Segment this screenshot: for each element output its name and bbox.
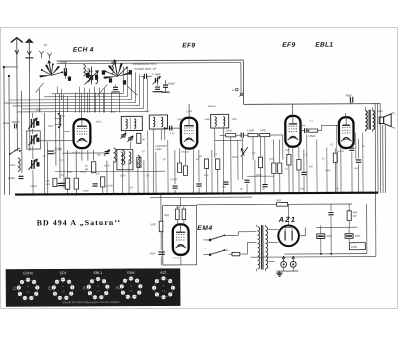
capacitor 100pF osc	[140, 74, 151, 79]
svg-text:1MΩ: 1MΩ	[150, 223, 155, 226]
power transformer T1	[256, 225, 267, 272]
resistor R osc grid	[137, 133, 146, 143]
svg-text:50pF: 50pF	[232, 118, 238, 121]
svg-text:300: 300	[97, 154, 102, 157]
wire left return 2	[8, 76, 11, 195]
svg-text:100: 100	[129, 186, 134, 189]
wire transformer taps	[252, 230, 278, 262]
wire bus bundle 3	[9, 70, 132, 100]
svg-text:2000: 2000	[9, 164, 16, 167]
svg-text:600: 600	[14, 149, 19, 152]
IF transformer IFT1 can	[121, 116, 142, 130]
resistor 1M detector	[260, 129, 270, 137]
resistor smoothing 10k	[347, 211, 357, 221]
wire right drop 5	[384, 125, 386, 193]
wire EM4 box bottom link	[163, 264, 197, 266]
capacitor af 3	[262, 185, 267, 187]
resistor R osc anode	[137, 157, 141, 167]
resistor R 10k	[85, 162, 96, 173]
capacitor tone	[349, 148, 354, 150]
svg-text:1MΩ: 1MΩ	[260, 129, 265, 132]
rectifier AZ1 U6	[278, 225, 299, 246]
heater fuse Si1	[281, 256, 287, 271]
loudspeaker LS1	[379, 112, 396, 130]
potentiometer volume arrow	[241, 147, 248, 157]
svg-text:25kΩ: 25kΩ	[95, 121, 102, 124]
output transformer T2	[365, 107, 374, 132]
trimmer IFT1 b	[127, 136, 133, 142]
wire right drop 2	[377, 103, 379, 193]
capacitor antenna series	[3, 121, 20, 129]
wire speaker links	[378, 111, 391, 125]
wire grid line EF9a	[188, 104, 190, 118]
svg-text:AZ1: AZ1	[278, 215, 297, 224]
wire det row	[220, 134, 283, 136]
bus junction dots	[66, 192, 378, 196]
wire bottom frame 2	[250, 256, 375, 259]
svg-text:BD 494 A „Saturn‘‘: BD 494 A „Saturn‘‘	[37, 218, 121, 227]
resistor 1M EM4 b	[164, 207, 186, 220]
resistor R anode EF9b	[287, 155, 291, 166]
tube EF9 U3 envelope	[285, 116, 300, 147]
capacitor cathode bypass ECH4	[58, 183, 64, 185]
grid components EF9a	[164, 126, 181, 141]
svg-text:0,5MΩ: 0,5MΩ	[308, 135, 316, 138]
svg-text:240pF: 240pF	[7, 176, 16, 180]
wire bus bundle 1	[51, 66, 123, 93]
svg-text:30pF: 30pF	[36, 109, 42, 112]
svg-text:C: C	[394, 127, 396, 130]
IF transformer IFT3 can	[211, 114, 229, 128]
wire grid return	[40, 140, 73, 142]
svg-text:4µF: 4µF	[354, 167, 359, 170]
svg-text:V O 1A: V O 1A	[172, 257, 180, 260]
capacitor 205pF ground T	[152, 80, 162, 92]
chassis bus bar	[15, 193, 377, 195]
resistor 0.1M detector	[247, 129, 258, 137]
svg-text:AZ1: AZ1	[160, 271, 167, 275]
resistor R cathode ECH4	[61, 174, 70, 190]
resistor 1M EM4 left	[150, 221, 163, 232]
wire right drop 4	[382, 125, 384, 193]
svg-text:Schalter oben: NF: Schalter oben: NF	[134, 67, 156, 71]
wire left branch	[21, 91, 23, 173]
component value labels	[9, 104, 366, 193]
panel choke symbol 1	[13, 285, 18, 289]
cluster capacitor blobs	[64, 70, 132, 85]
resistor 1M EM4 a	[176, 209, 180, 220]
wire EF9b pins	[289, 147, 304, 194]
resistor R screen ECH4	[74, 178, 78, 189]
svg-text:EM4: EM4	[197, 225, 213, 232]
wire EF9a pins to bus	[175, 148, 207, 194]
wire right frame vertical	[366, 204, 368, 254]
capacitor 240pF	[7, 176, 24, 180]
svg-text:P 87: P 87	[285, 149, 291, 152]
capacitor af 1	[223, 182, 228, 184]
svg-text:50µF: 50µF	[150, 252, 156, 255]
wire bus bundle 7	[17, 78, 148, 112]
capacitor bypass EF9a 2	[196, 184, 201, 186]
wire lower link rail	[196, 203, 270, 205]
switch antenna	[9, 148, 21, 155]
resistor R anode load EF9a	[198, 155, 209, 169]
svg-text:40µF: 40µF	[346, 93, 353, 97]
wire ECH4 cathode to bus	[68, 187, 103, 195]
socket view EF9	[52, 271, 75, 300]
gang section frame	[27, 131, 41, 149]
capacitor coupling to EBL1	[300, 124, 307, 133]
wire HT rail right	[244, 103, 380, 106]
wire anode line EF9b	[292, 104, 294, 117]
capacitor reservoir small	[328, 213, 333, 215]
wire left link top	[4, 66, 17, 68]
svg-text:1MΩ: 1MΩ	[269, 158, 274, 161]
svg-text:ECH 4: ECH 4	[73, 47, 94, 54]
svg-text:0,1MΩ: 0,1MΩ	[170, 178, 177, 181]
tuning capacitor C-gang b	[28, 159, 39, 170]
resistor R af	[278, 163, 282, 174]
svg-text:5000: 5000	[256, 174, 262, 177]
EM4 section frame	[163, 206, 197, 265]
IF transformer IFT2 can	[149, 115, 167, 129]
capacitor 30uF C30b	[345, 234, 361, 239]
tube ECH4 U1 envelope	[73, 119, 90, 148]
svg-text:pF: pF	[53, 152, 57, 155]
svg-text:10kΩ: 10kΩ	[351, 245, 357, 249]
wire EBL1 pins	[335, 139, 358, 193]
svg-text:10 kΩ: 10 kΩ	[55, 147, 62, 150]
socket view AZ1	[152, 271, 175, 300]
terminal marks 4-0 C-4	[232, 88, 243, 98]
wire bottom frame 1	[284, 253, 366, 255]
wire EM4 grid feed	[180, 197, 182, 205]
svg-text:MΩ: MΩ	[46, 183, 50, 186]
wire AVC line	[55, 170, 165, 173]
svg-text:100: 100	[68, 171, 73, 174]
capacitor detector coupling	[241, 133, 243, 138]
wire detector row link	[226, 134, 270, 136]
svg-text:100pF: 100pF	[110, 110, 117, 113]
cluster drop wires	[58, 86, 105, 112]
resistor R avc 1	[216, 159, 220, 170]
socket view EBL1	[87, 271, 110, 299]
cluster link diagonals	[35, 82, 137, 96]
wave switch S1b fan	[103, 60, 131, 79]
capacitor 170pF	[59, 60, 67, 79]
tube socket panel	[6, 269, 180, 307]
svg-text:EBL1: EBL1	[315, 42, 333, 49]
coil L1	[83, 65, 85, 76]
fuse F1 mains	[228, 252, 247, 255]
svg-text:T4: T4	[43, 43, 47, 47]
svg-text:regler: regler	[155, 148, 162, 151]
earth terminal Y1	[39, 51, 43, 59]
capacitor screen bypass ECH4	[92, 184, 97, 186]
tube EBL1 U4 envelope	[339, 117, 354, 148]
svg-text:100pF: 100pF	[177, 118, 184, 121]
svg-text:EM4: EM4	[127, 271, 134, 275]
resistor R cathode EBL1	[333, 153, 337, 162]
ground mains	[276, 271, 298, 276]
wire ECH4 pins down	[67, 150, 93, 178]
wire cluster drop lines	[76, 92, 120, 112]
wire bus bundle 6	[21, 76, 143, 109]
capacitor agc	[60, 183, 65, 185]
svg-text:1kΩ: 1kΩ	[204, 174, 209, 177]
svg-text:0,5MΩ: 0,5MΩ	[106, 184, 113, 187]
wire mains leads	[203, 232, 238, 255]
heater fuse Si2	[290, 256, 296, 271]
svg-text:170pF: 170pF	[59, 60, 67, 64]
capacitor bypass EF9a 1	[172, 186, 177, 188]
capacitor 50uF EM4	[150, 252, 165, 255]
wire antenna feed down A1	[16, 69, 18, 151]
svg-text:EF9: EF9	[60, 271, 67, 275]
antenna A2	[25, 38, 34, 69]
wire right drop 1	[374, 103, 377, 256]
wire AF link	[247, 175, 274, 177]
capacitor decoupling with ground	[111, 84, 119, 92]
svg-text:C: C	[394, 112, 396, 115]
capacitor 205pF	[161, 80, 175, 92]
tube EM4 U5 envelope	[173, 224, 189, 254]
capacitor 30uF C30a	[317, 234, 333, 239]
svg-text:1,5kΩ: 1,5kΩ	[186, 110, 193, 113]
svg-text:5000: 5000	[325, 169, 331, 172]
svg-text:100: 100	[300, 187, 305, 190]
svg-text:EF9: EF9	[282, 42, 295, 49]
socket view ECH4	[17, 271, 40, 300]
tube EF9 U2 envelope	[181, 118, 197, 149]
svg-text:2W: 2W	[352, 215, 357, 218]
resistor R cathode EF9a	[183, 166, 187, 176]
svg-text:EF9: EF9	[182, 42, 195, 49]
svg-text:5000: 5000	[104, 164, 110, 167]
wire IF can drops	[126, 129, 162, 194]
svg-text:5000: 5000	[83, 190, 89, 193]
resistor 10k detector	[226, 129, 236, 137]
schematic drawing content	[2, 36, 396, 307]
resistor R avc ECH4	[95, 172, 105, 186]
svg-text:205pF: 205pF	[166, 82, 175, 86]
coil L IF link	[138, 155, 140, 167]
wire HT riser	[242, 60, 244, 104]
svg-text:240pF: 240pF	[29, 185, 37, 188]
svg-text:1MΩ: 1MΩ	[176, 207, 181, 209]
svg-text:5kΩ: 5kΩ	[276, 198, 281, 202]
antenna A1	[11, 38, 23, 69]
svg-text:2000: 2000	[59, 115, 66, 118]
capacitor cathode EBL1	[356, 160, 361, 162]
wire AZ1 anode feeds	[274, 227, 316, 236]
svg-text:50kΩ: 50kΩ	[232, 156, 238, 159]
svg-text:100pF: 100pF	[3, 121, 11, 125]
resistor R cathode EF9b	[297, 159, 301, 170]
wire AZ1 cathode feed	[287, 204, 289, 225]
svg-text:100: 100	[222, 186, 227, 189]
wire detector verticals	[215, 128, 280, 194]
resistor 2.5M agc	[45, 178, 57, 186]
svg-text:~: ~	[204, 246, 206, 250]
wire EF9b screen link	[282, 135, 284, 160]
svg-text:5000: 5000	[300, 124, 306, 127]
tuning capacitor C-gang a	[28, 134, 39, 145]
svg-text:87 H1: 87 H1	[338, 150, 345, 153]
wire heater rail	[150, 196, 252, 199]
wire bus bundle 2	[44, 68, 127, 96]
wire detector link	[215, 139, 242, 141]
svg-text:ECH4: ECH4	[23, 271, 33, 275]
wire bundle risers	[40, 89, 69, 189]
trimmer padder top	[28, 118, 39, 129]
wire grid line ECH4	[81, 111, 83, 119]
wire top rail	[57, 59, 243, 62]
capacitor af 2	[244, 180, 249, 182]
wire bus to EM4 drop	[160, 194, 162, 205]
wire gang verticals	[33, 113, 48, 195]
svg-text:Ansicht der Röhrenfassungen vo: Ansicht der Röhrenfassungen von der Löts…	[61, 300, 120, 304]
panel choke symbol 3	[83, 285, 88, 289]
resistor R volume pot body	[258, 157, 262, 168]
capacitor 40uF on HT rail	[346, 93, 353, 103]
svg-text:50kΩ: 50kΩ	[80, 171, 86, 174]
resistor R screen EF9a	[178, 163, 182, 173]
wire HT riser second	[240, 63, 242, 96]
capacitor bypass EF9b	[301, 172, 306, 193]
wave switch S1a fan	[39, 60, 63, 77]
earth terminal Y2	[47, 53, 51, 60]
svg-text:0,1MΩ: 0,1MΩ	[247, 129, 255, 132]
svg-text:Schalterstand: KW 2: Schalterstand: KW 2	[132, 62, 157, 66]
trimmer IFT1 a	[120, 133, 126, 139]
svg-text:465kHz: 465kHz	[208, 105, 217, 108]
wire shield rail	[57, 62, 241, 65]
resistor R grid leak	[272, 163, 276, 174]
wire mid extra verticals	[148, 125, 363, 194]
wire left return 1	[3, 67, 6, 195]
panel choke symbol 4	[116, 285, 121, 289]
wire left tick rows	[55, 119, 70, 132]
wire bus bundle 5	[12, 74, 139, 106]
field coil box	[349, 243, 365, 250]
wire right drop 3	[379, 103, 381, 193]
svg-text:30µF: 30µF	[355, 235, 361, 238]
antenna coil set with core	[84, 67, 98, 85]
resistor 5k dropper	[271, 198, 353, 207]
capacitor 2x500pF	[47, 148, 62, 154]
trimmer 3-30pF	[151, 72, 161, 84]
wire bus bundle 4	[4, 72, 136, 103]
svg-text:7MΩ: 7MΩ	[164, 214, 169, 217]
svg-text:400: 400	[146, 110, 151, 113]
svg-text:30µF: 30µF	[326, 235, 332, 238]
wire transformer primary	[346, 113, 367, 133]
svg-text:EBL1: EBL1	[94, 271, 103, 275]
svg-text:3–30pF: 3–30pF	[151, 72, 160, 76]
coil L osc feedback	[114, 148, 116, 162]
svg-text:50pF: 50pF	[205, 118, 211, 121]
oscillator coil pack	[117, 149, 133, 169]
capacitor 380pF	[85, 69, 93, 85]
wire PSU links	[316, 204, 357, 255]
svg-text:1000: 1000	[120, 174, 126, 177]
wire antenna feed down A2	[28, 69, 30, 151]
terminal dots left	[3, 66, 10, 77]
panel choke symbol 2	[48, 285, 53, 289]
coil antenna secondary	[58, 113, 61, 128]
svg-text:380pF: 380pF	[85, 69, 93, 73]
mains switch S2	[204, 234, 225, 256]
coil L padder	[122, 150, 124, 164]
coil L2	[111, 62, 113, 73]
coil L3 antenna	[18, 158, 20, 171]
resistor 0.5M grid EBL1	[308, 129, 318, 138]
socket view EM4	[120, 271, 143, 299]
wire EF9b to EBL1	[300, 125, 338, 130]
svg-text:10kΩ: 10kΩ	[226, 129, 232, 132]
wire mains to transformer	[238, 232, 252, 254]
wire AVC branch	[62, 152, 106, 154]
svg-text:16pF: 16pF	[48, 125, 54, 128]
wire osc section verticals	[107, 160, 144, 194]
trimmer padder	[104, 149, 110, 156]
wire EM4 internals	[161, 206, 191, 265]
svg-text:200: 200	[308, 165, 314, 168]
svg-text:5·10: 5·10	[170, 132, 175, 135]
